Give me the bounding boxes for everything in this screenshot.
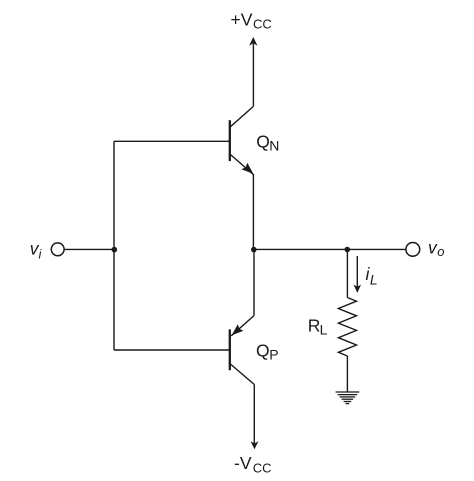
wire: left base rail bbox=[113, 141, 115, 350]
svg-text:+V: +V bbox=[231, 9, 253, 29]
iL current arrow bbox=[354, 256, 362, 293]
svg-text:-V: -V bbox=[234, 453, 252, 473]
node: load junction dot bbox=[345, 247, 351, 253]
svg-text:Q: Q bbox=[256, 340, 270, 360]
-VCC supply label bbox=[234, 453, 272, 475]
svg-text:L: L bbox=[320, 322, 328, 338]
wire: QN emitter to output node bbox=[252, 174, 254, 249]
output label vo bbox=[428, 237, 445, 258]
+VCC supply label bbox=[231, 9, 272, 31]
wire: resistor to ground bbox=[346, 356, 348, 392]
resistor RL zigzag bbox=[338, 298, 356, 357]
svg-text:i: i bbox=[39, 246, 43, 261]
svg-text:R: R bbox=[308, 316, 321, 336]
svg-text:CC: CC bbox=[253, 460, 272, 475]
-VCC arrow (down) bbox=[251, 385, 259, 450]
wire: node to resistor bbox=[346, 250, 348, 298]
node: input junction dot bbox=[112, 247, 118, 253]
QN label bbox=[256, 132, 279, 154]
wire: QP base line bbox=[114, 349, 229, 351]
transistor QN (NPN) bbox=[230, 120, 254, 174]
wire: output node to output terminal bbox=[254, 248, 406, 250]
RL label bbox=[308, 316, 328, 338]
wire: collector lead of QN bbox=[230, 106, 254, 127]
iL label bbox=[366, 264, 378, 288]
svg-text:P: P bbox=[269, 347, 278, 363]
ground bbox=[336, 392, 360, 404]
svg-text:o: o bbox=[437, 244, 444, 259]
wire: input to base rail bbox=[64, 248, 114, 250]
svg-text:CC: CC bbox=[253, 17, 272, 32]
input label vi bbox=[30, 238, 43, 261]
svg-text:N: N bbox=[269, 137, 279, 153]
input terminal circle bbox=[51, 243, 64, 256]
+VCC arrow (up) bbox=[249, 37, 257, 106]
wire: output node to QP emitter bbox=[253, 249, 255, 315]
node: output junction dot bbox=[251, 247, 257, 253]
QP label bbox=[256, 340, 279, 362]
transistor QP (PNP) bbox=[230, 316, 255, 385]
svg-text:L: L bbox=[370, 272, 378, 288]
output terminal circle bbox=[406, 243, 420, 257]
svg-text:Q: Q bbox=[256, 132, 270, 152]
wire: QN base line bbox=[114, 140, 229, 142]
